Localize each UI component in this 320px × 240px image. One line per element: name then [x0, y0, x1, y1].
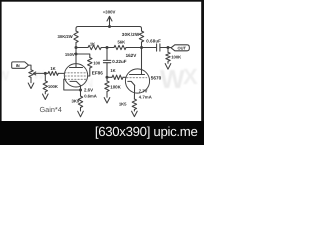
resistor 30K/2W left: [74, 31, 78, 43]
svg-text:OUT: OUT: [177, 45, 186, 50]
svg-text:100K: 100K: [48, 84, 58, 89]
wire: [58, 72, 64, 74]
pin grid g1 EF86: [65, 72, 88, 74]
frame border right: [201, 0, 204, 145]
node rail junction: [108, 25, 111, 28]
wire g3 to cathode loop: [64, 79, 81, 90]
watermark bar: [0, 121, 204, 145]
svg-text:2.6V: 2.6V: [84, 88, 93, 93]
svg-text:1K: 1K: [50, 66, 55, 71]
svg-text:Gain*4: Gain*4: [40, 105, 62, 114]
wire: [160, 47, 171, 49]
ground cathode EF86: [78, 111, 84, 117]
svg-text:1K: 1K: [110, 68, 115, 73]
svg-text:IN: IN: [16, 63, 20, 68]
pin grid 5670: [127, 77, 147, 79]
svg-text:0.68uF: 0.68uF: [146, 39, 161, 44]
resistor 1K grid 5670: [107, 75, 126, 79]
wire screen feed: [76, 54, 90, 58]
frame border top: [0, 0, 204, 2]
ground output: [165, 64, 171, 70]
node 162V: [140, 46, 143, 49]
wire plate lead EF86: [75, 43, 77, 68]
svg-text:EF86: EF86: [92, 71, 103, 76]
svg-text:100K: 100K: [171, 55, 181, 60]
wire anode row: [76, 47, 88, 49]
node output: [167, 46, 170, 49]
node coupling tap: [106, 46, 109, 49]
resistor 1K anode: [88, 45, 101, 49]
svg-text:0.22uF: 0.22uF: [112, 59, 127, 64]
node anode 150V: [75, 46, 78, 49]
wire input: [29, 65, 32, 70]
value labels: [16, 10, 187, 115]
svg-text:1K: 1K: [90, 41, 95, 46]
ground grid leak: [104, 98, 110, 103]
svg-text:3K9: 3K9: [72, 98, 80, 103]
svg-text:1K5: 1K5: [119, 101, 127, 106]
wire: [126, 47, 156, 49]
wire pot bottom: [30, 77, 32, 82]
potentiometer volume: [29, 70, 45, 78]
power arrow +300V: [107, 16, 112, 26]
capacitor 0.22uF coupling: [103, 48, 110, 78]
wire to grid: [45, 72, 48, 74]
wire: [141, 42, 143, 47]
svg-text:30K/2W: 30K/2W: [58, 34, 73, 39]
svg-text:X: X: [183, 64, 198, 89]
tube EF86 envelope: [64, 64, 87, 87]
wire 162V plate lead 5670: [141, 48, 143, 75]
node IN tag: [12, 62, 29, 68]
svg-text:W: W: [33, 68, 45, 82]
resistor 3K9 cathode EF86: [78, 96, 82, 108]
ground input: [43, 94, 49, 100]
node grid 5670: [106, 76, 109, 79]
node wiper: [44, 72, 47, 75]
frame border left: [0, 0, 2, 145]
svg-text:56K: 56K: [117, 40, 125, 45]
wire: [101, 47, 114, 49]
svg-text:100K: 100K: [110, 84, 121, 89]
junction dots: [44, 25, 170, 92]
resistor 56K: [114, 45, 126, 49]
ground pot: [28, 83, 34, 89]
svg-text:7.7V: 7.7V: [139, 88, 148, 93]
node cathode EF86: [79, 89, 82, 92]
resistor 1K5 cathode 5670: [132, 99, 136, 110]
resistor 30K/2W right: [139, 31, 143, 42]
resistor 100K input: [43, 73, 47, 93]
pin plate bar EF86: [70, 67, 83, 69]
resistor 1K grid stopper EF86: [48, 71, 58, 75]
svg-text:5670: 5670: [151, 76, 162, 81]
wire screen to g2: [88, 68, 90, 76]
svg-text:30K/2W: 30K/2W: [122, 32, 140, 37]
svg-text:[630x390] upic.me: [630x390] upic.me: [95, 124, 198, 139]
resistor 100K output: [166, 48, 170, 64]
node screen tap: [75, 53, 78, 56]
svg-text:100: 100: [93, 61, 101, 66]
pin cathode 5670: [128, 81, 135, 85]
resistor 100 screen: [88, 58, 92, 69]
svg-text:150V: 150V: [65, 52, 75, 57]
svg-text:162V: 162V: [126, 53, 138, 58]
svg-text:+300V: +300V: [103, 10, 116, 15]
resistor 100K grid leak 5670: [105, 77, 109, 97]
pin plate bar 5670: [130, 74, 145, 76]
svg-text:0.6mA: 0.6mA: [84, 94, 97, 99]
capacitor 0.68uF: [156, 44, 158, 51]
faint watermark ghosts: [0, 64, 198, 94]
pin cathode EF86: [70, 81, 81, 85]
node OUT tag: [171, 45, 189, 51]
pin grid g2 EF86: [65, 75, 88, 77]
pin grid g3 EF86: [65, 78, 87, 80]
wire B+ rail: [76, 27, 142, 32]
tube 5670 envelope: [125, 69, 149, 93]
ground cathode 5670: [132, 111, 138, 116]
svg-text:W: W: [160, 64, 185, 94]
svg-text:4.7mA: 4.7mA: [139, 94, 152, 99]
